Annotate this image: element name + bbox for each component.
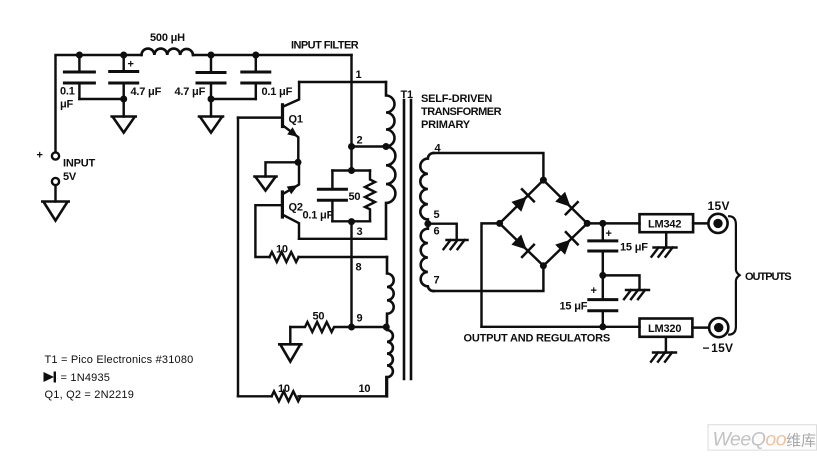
wire bottom feedback [238, 395, 272, 397]
transformer core line left [403, 100, 406, 379]
terminal input plus [52, 152, 59, 159]
node junction RC top [348, 167, 355, 174]
svg-text:7: 7 [434, 275, 440, 287]
svg-text:Q1: Q1 [289, 114, 303, 126]
node junction C3-C4 ground [208, 96, 215, 103]
chassis ground CG3 [652, 248, 677, 257]
wire Q1 collector top to winding [299, 81, 386, 83]
transistor Q2 [282, 162, 299, 239]
svg-text:INPUT: INPUT [63, 158, 95, 170]
svg-text:5: 5 [434, 209, 440, 221]
inductor L 500uH [142, 49, 194, 55]
svg-text:0.1 μF: 0.1 μF [262, 86, 293, 98]
node junction minus rail [599, 323, 606, 330]
capacitor C5 0.1uF (snubber) [318, 171, 346, 222]
chassis ground CG2 [624, 290, 649, 299]
svg-text:LM342: LM342 [648, 219, 681, 231]
node junction 3 [348, 218, 355, 225]
wire pin 5-6 to chassis ground [428, 224, 457, 240]
svg-text:2: 2 [357, 135, 363, 147]
outputs brace [729, 216, 739, 334]
svg-text:15 μF: 15 μF [620, 242, 648, 254]
svg-text:OUTPUT AND REGULATORS: OUTPUT AND REGULATORS [464, 333, 611, 345]
node junction 9 at winding [383, 324, 390, 331]
ground G4 [255, 177, 277, 191]
wire center node line lower [350, 222, 352, 327]
terminal input minus [52, 178, 59, 185]
chassis ground CG1 [444, 240, 468, 249]
node junction top D [252, 52, 259, 59]
node junction top B [120, 52, 127, 59]
svg-text:1: 1 [356, 69, 362, 81]
svg-text:15V: 15V [708, 199, 730, 213]
svg-text:10: 10 [276, 244, 288, 256]
transformer core line right [410, 100, 413, 379]
ground G1 [42, 202, 68, 221]
transistor Q1 [283, 82, 300, 162]
svg-text:5V: 5V [63, 171, 77, 183]
wire left feedback rail [237, 118, 239, 397]
wire node 9 to winding [352, 326, 387, 328]
svg-text:15 μF: 15 μF [560, 301, 588, 313]
transformer primary winding upper (pins 1-2-3) [386, 82, 395, 239]
svg-text:LM320: LM320 [648, 323, 681, 335]
node junction 2 on center line [348, 143, 355, 150]
node junction top C [208, 52, 215, 59]
svg-text:Q1, Q2 = 2N2219: Q1, Q2 = 2N2219 [45, 389, 135, 401]
wire output and regulators line [482, 326, 640, 328]
svg-text:WeeQoo维库: WeeQoo维库 [713, 429, 817, 451]
svg-text:4.7 μF: 4.7 μF [131, 86, 162, 98]
svg-text:T1: T1 [401, 89, 414, 101]
svg-text:μF: μF [60, 99, 74, 111]
resistor R1 10 [270, 252, 299, 262]
node junction cap midpoint [599, 272, 606, 279]
svg-text:T1 = Pico Electronics #31080: T1 = Pico Electronics #31080 [45, 354, 194, 366]
wire LM320 to chassis ground [665, 337, 667, 353]
wire node 2 to winding [352, 145, 387, 147]
svg-text:− 15V: − 15V [703, 341, 734, 355]
wire emitter junction to ground [266, 162, 299, 176]
wire RC bottom bar [332, 220, 370, 222]
wire top bus right of inductor [193, 54, 352, 56]
wire bridge right to regulator [587, 222, 639, 224]
svg-text:6: 6 [434, 226, 440, 238]
node junction 9 on center line [348, 324, 355, 331]
node junction 2 at winding [383, 143, 390, 150]
node junction plus rail cap top [599, 220, 606, 227]
svg-text:TRANSFORMER: TRANSFORMER [421, 106, 502, 118]
svg-text:500 μH: 500 μH [150, 32, 185, 44]
wire RC top bar [332, 169, 370, 171]
resistor R4 10 (bottom) [272, 391, 301, 401]
capacitor C4 0.1uF [242, 55, 270, 99]
capacitor C1 0.1uF [64, 55, 94, 99]
diode D3 bottom-left [511, 235, 534, 258]
wire bridge left to output rail [482, 223, 500, 326]
chassis ground CG4 [651, 353, 676, 362]
wire R1 to lower winding pin8 [299, 256, 387, 258]
capacitor C7 15uF lower [589, 275, 617, 326]
wire pin 4 to bridge top [434, 153, 544, 180]
wire cap midpoint to chassis ground [603, 275, 640, 290]
node junction C1-C2 ground [120, 96, 127, 103]
svg-text:+: + [37, 150, 43, 162]
resistor R2 50 (vertical) [365, 171, 375, 222]
ground G2 [112, 117, 136, 133]
ground G3 [199, 117, 223, 133]
node junction top A [76, 52, 83, 59]
capacitor C2 4.7uF [110, 55, 138, 117]
resistor R3 50 (node 9 to ground) [290, 322, 351, 332]
svg-text:OUTPUTS: OUTPUTS [745, 271, 791, 283]
diode D2 top-right [555, 192, 578, 215]
transformer secondary winding (pins 4-5-6-7) [420, 153, 433, 291]
capacitor C6 15uF upper [589, 223, 617, 275]
svg-text:4.7 μF: 4.7 μF [175, 86, 206, 98]
wire input left rail and top bus [56, 55, 142, 152]
ground G5 [279, 344, 301, 361]
node junction Q1-Q2 emitters [295, 159, 302, 166]
svg-text:3: 3 [357, 226, 363, 238]
svg-text:= 1N4935: = 1N4935 [61, 372, 111, 384]
svg-text:+: + [606, 228, 612, 240]
wire center node line upper [350, 55, 352, 171]
wire C1 bottom to ground node [79, 98, 123, 100]
node junction bridge top [540, 177, 547, 184]
node junction bridge left [496, 220, 503, 227]
wire LM320 output [692, 326, 708, 328]
wire Q1 base [238, 116, 281, 118]
wire C4 bottom to ground node [211, 98, 256, 100]
node junction pin 5-6 [424, 220, 431, 227]
regulator U2 LM320 [640, 319, 693, 337]
svg-text:0.1 μF: 0.1 μF [303, 210, 334, 222]
svg-text:9: 9 [357, 313, 363, 325]
svg-text:PRIMARY: PRIMARY [421, 119, 471, 131]
terminal J1 15V [708, 214, 727, 233]
note diode symbol [44, 372, 55, 383]
wire LM342 output [693, 222, 708, 224]
wire R3 left to ground [289, 327, 291, 344]
svg-text:0.1: 0.1 [60, 86, 75, 98]
wire minus terminal to ground [54, 185, 56, 201]
wire LM342 to chassis ground [665, 232, 667, 247]
svg-text:8: 8 [356, 262, 362, 274]
regulator U1 LM342 [640, 214, 694, 232]
svg-text:50: 50 [313, 311, 325, 323]
terminal J2 minus 15V [709, 318, 728, 337]
capacitor C3 4.7uF [197, 55, 225, 117]
watermark box [708, 425, 817, 450]
diode D1 top-left [511, 189, 534, 212]
wire pin 7 to bridge bottom [434, 266, 544, 291]
bridge rectifier diamond [500, 180, 588, 266]
node junction bridge bottom [540, 262, 547, 269]
svg-text:+: + [591, 285, 597, 297]
transformer feedback winding lower (pins 8-9-10) [387, 257, 394, 396]
svg-text:10: 10 [359, 383, 371, 395]
svg-text:INPUT FILTER: INPUT FILTER [291, 40, 359, 52]
wire bottom feedback right [299, 377, 387, 396]
svg-text:Q2: Q2 [289, 202, 303, 214]
node junction bridge right [584, 220, 591, 227]
svg-text:50: 50 [349, 191, 361, 203]
wire Q2 base to resistor R1 [255, 205, 282, 257]
svg-text:10: 10 [278, 383, 290, 395]
svg-text:SELF-DRIVEN: SELF-DRIVEN [421, 93, 492, 105]
wire Q2 collector to upper winding bottom [299, 238, 386, 240]
svg-text:+: + [128, 59, 134, 71]
diode D4 bottom-right [555, 232, 578, 255]
